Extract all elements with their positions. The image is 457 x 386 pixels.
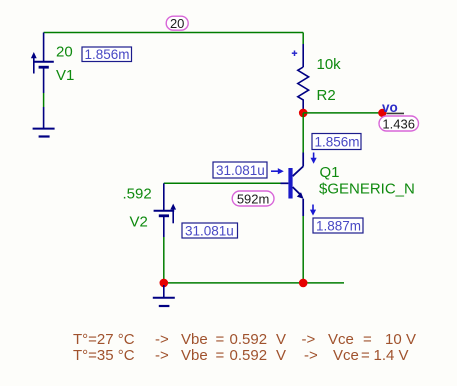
annotation line 2 bbox=[73, 347, 409, 364]
svg-text:1.4: 1.4 bbox=[374, 347, 395, 364]
battery V1 bbox=[31, 33, 54, 94]
wire vo net bbox=[303, 112, 378, 114]
wire collector bbox=[302, 113, 304, 153]
svg-text:Vce: Vce bbox=[333, 347, 359, 364]
svg-text:31.081u: 31.081u bbox=[185, 223, 234, 238]
svg-text:1.856m: 1.856m bbox=[315, 135, 360, 150]
svg-text:1.887m: 1.887m bbox=[316, 218, 361, 233]
current probe box 31.081u (base) bbox=[213, 162, 267, 178]
current probe box 1.887m (emitter) bbox=[313, 218, 363, 233]
wire V1 to ground bbox=[43, 93, 45, 107]
node vo terminal dot bbox=[378, 109, 386, 117]
svg-text:592m: 592m bbox=[237, 191, 270, 206]
svg-text:R2: R2 bbox=[317, 87, 336, 104]
svg-text:V2: V2 bbox=[130, 214, 148, 231]
svg-text:=: = bbox=[361, 347, 370, 364]
svg-text:V: V bbox=[276, 331, 286, 348]
svg-text:V: V bbox=[406, 331, 416, 348]
wire V2 to bottom junction bbox=[163, 237, 165, 283]
node voltage bubble 592m bbox=[232, 191, 274, 206]
svg-text:->: -> bbox=[155, 347, 169, 364]
junction bottom left bbox=[160, 279, 169, 288]
ground (bottom) bbox=[153, 285, 175, 306]
wire emitter bbox=[302, 216, 304, 283]
current probe arrow collector bbox=[311, 153, 317, 164]
svg-text:1.856m: 1.856m bbox=[85, 47, 130, 62]
svg-text:Vbe: Vbe bbox=[181, 347, 208, 364]
ground (below V1) bbox=[33, 107, 55, 137]
svg-text:10k: 10k bbox=[317, 56, 342, 73]
current probe box 1.856m (collector) bbox=[312, 134, 361, 150]
node 20 voltage bubble bbox=[166, 16, 188, 31]
node vo voltage bubble 1.436 bbox=[379, 116, 419, 131]
svg-text:0.592: 0.592 bbox=[230, 331, 268, 348]
junction node collector bbox=[299, 109, 308, 118]
svg-text:V1: V1 bbox=[56, 67, 74, 84]
svg-text:=: = bbox=[216, 331, 225, 348]
svg-text:Vbe: Vbe bbox=[181, 331, 208, 348]
svg-text:V: V bbox=[276, 347, 286, 364]
svg-text:20: 20 bbox=[56, 44, 73, 61]
wire base net bbox=[164, 182, 281, 184]
current probe box 31.081u (V2 branch) bbox=[182, 223, 238, 238]
svg-text:T°=27 °C: T°=27 °C bbox=[73, 331, 135, 348]
svg-text:vo: vo bbox=[382, 100, 398, 115]
svg-text:->: -> bbox=[304, 347, 318, 364]
junction bottom emitter bbox=[299, 279, 308, 288]
current probe box 1.856m (V1 branch) bbox=[82, 47, 132, 62]
svg-text:T°=35 °C: T°=35 °C bbox=[73, 347, 135, 364]
svg-text:$GENERIC_N: $GENERIC_N bbox=[319, 180, 415, 197]
wire bottom net bbox=[164, 282, 344, 284]
svg-text:31.081u: 31.081u bbox=[216, 163, 265, 178]
wire top net 20 bbox=[44, 32, 304, 34]
svg-text:->: -> bbox=[155, 331, 169, 348]
svg-text:Q1: Q1 bbox=[320, 164, 340, 181]
resistor R2 plus polarity mark bbox=[292, 51, 297, 57]
wire vo text stub bbox=[387, 112, 405, 114]
svg-text:20: 20 bbox=[170, 16, 184, 31]
svg-text:0.592: 0.592 bbox=[230, 347, 268, 364]
svg-text:=: = bbox=[363, 331, 372, 348]
current probe arrow emitter bbox=[310, 205, 316, 216]
svg-text:->: -> bbox=[302, 331, 316, 348]
svg-text:10: 10 bbox=[385, 331, 402, 348]
svg-text:Vce: Vce bbox=[328, 331, 354, 348]
svg-text:V: V bbox=[399, 347, 409, 364]
transistor Q1 bbox=[281, 153, 304, 217]
resistor R2 bbox=[298, 33, 309, 112]
current probe arrow base bbox=[271, 168, 284, 174]
svg-text:1.436: 1.436 bbox=[382, 116, 415, 131]
svg-text:.592: .592 bbox=[123, 185, 152, 202]
annotation line 1 bbox=[73, 331, 416, 348]
svg-text:=: = bbox=[216, 347, 225, 364]
battery V2 bbox=[154, 183, 177, 237]
